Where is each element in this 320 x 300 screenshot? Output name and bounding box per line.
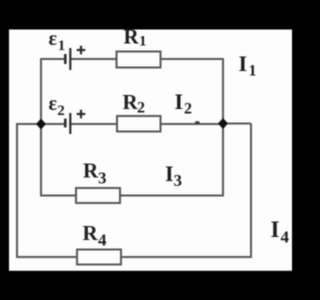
svg-text:I: I bbox=[165, 161, 174, 186]
svg-text:1: 1 bbox=[249, 63, 257, 80]
wire: row1 left segment from corner to battery e1 bbox=[41, 58, 65, 60]
svg-text:R: R bbox=[124, 25, 140, 49]
wire: node B right to I4 branch corner bbox=[223, 123, 251, 125]
battery e2 negative plate (short) bbox=[64, 119, 67, 128]
resistor R1 box bbox=[117, 52, 161, 68]
svg-text:1: 1 bbox=[139, 34, 147, 50]
battery e1 positive plate (long) bbox=[69, 48, 71, 70]
wire: node A to battery e2 bbox=[41, 123, 65, 125]
wire: left rail x=17 from row2 down to bottom row bbox=[16, 123, 18, 258]
node A junction dot bbox=[36, 119, 46, 130]
svg-text:I: I bbox=[239, 51, 248, 76]
wire: battery e1 to R1 box bbox=[70, 58, 117, 60]
svg-text:2: 2 bbox=[184, 101, 192, 118]
label epsilon2 bbox=[49, 93, 65, 119]
svg-text:R: R bbox=[83, 221, 99, 245]
label epsilon1 bbox=[49, 28, 66, 54]
svg-text:R: R bbox=[83, 159, 99, 183]
svg-text:ε: ε bbox=[49, 28, 58, 50]
svg-text:3: 3 bbox=[98, 169, 107, 188]
wire: R3 row left segment bbox=[41, 195, 76, 197]
label I4 bbox=[271, 217, 290, 247]
wire: R1 box to top-right corner bbox=[161, 58, 225, 60]
wire: row2 far-left segment from rail x=17 to node A bbox=[17, 123, 41, 125]
svg-text:4: 4 bbox=[281, 228, 290, 247]
battery e1 plus sign bbox=[77, 46, 86, 55]
node B junction dot bbox=[218, 118, 228, 129]
svg-text:I: I bbox=[175, 89, 184, 114]
svg-text:2: 2 bbox=[137, 100, 145, 117]
label R4 bbox=[83, 221, 108, 250]
wire: R3 box to right rail bbox=[120, 195, 224, 197]
battery e2 plus sign bbox=[77, 110, 86, 119]
wire: R2 box to node B bbox=[161, 123, 224, 125]
label R3 bbox=[83, 159, 107, 188]
svg-text:ε: ε bbox=[49, 93, 58, 115]
wire: left rail x=41 from row1 corner down to R3 row bbox=[40, 58, 42, 197]
wire: battery e2 to R2 box bbox=[70, 123, 117, 125]
wire: right rail x=223 from row1 down to R3 row bbox=[222, 58, 224, 197]
label I2 bbox=[175, 89, 193, 118]
resistor R4 box bbox=[77, 250, 121, 265]
battery e1 negative plate (short) bbox=[64, 54, 67, 64]
label I1 bbox=[239, 51, 257, 80]
svg-text:4: 4 bbox=[98, 231, 107, 250]
resistor R2 box bbox=[117, 116, 161, 132]
label I3 bbox=[165, 161, 182, 190]
battery e2 positive plate (long) bbox=[69, 113, 71, 134]
resistor R3 box bbox=[76, 188, 120, 203]
wire: bottom row left segment to R4 bbox=[17, 256, 77, 258]
svg-text:2: 2 bbox=[57, 103, 65, 119]
label R1 bbox=[124, 25, 147, 50]
current direction tick on R2-to-node wire bbox=[195, 121, 200, 124]
photo white area bbox=[9, 30, 292, 271]
wire: right rail x=251 (I4 branch) down to bottom row bbox=[250, 124, 252, 259]
wire: R4 box to bottom-right corner bbox=[121, 256, 252, 258]
svg-text:1: 1 bbox=[58, 38, 66, 54]
svg-text:3: 3 bbox=[174, 171, 183, 190]
svg-text:I: I bbox=[271, 217, 280, 242]
label R2 bbox=[123, 90, 146, 117]
